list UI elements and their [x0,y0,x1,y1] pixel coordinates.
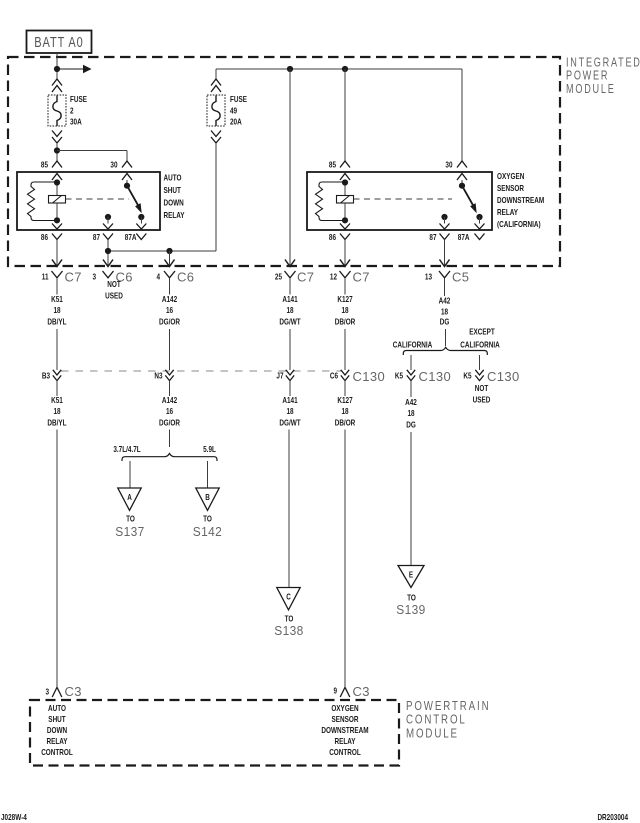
svg-text:CONTROL: CONTROL [329,747,361,757]
svg-text:DG/OR: DG/OR [159,418,181,428]
svg-text:SHUT: SHUT [48,714,66,724]
svg-text:SENSOR: SENSOR [497,183,525,193]
svg-text:MODULE: MODULE [566,83,616,97]
relay K1: AUTO SHUT DOWN RELAY box [17,172,185,230]
node: bus tap to 25 C7 [287,66,293,72]
svg-text:CONTROL: CONTROL [41,747,73,757]
svg-text:FUSE: FUSE [230,94,247,104]
connector 4 C6 [156,270,194,285]
wire: O2 86 to connector 12 C7 [340,240,350,267]
svg-text:B3: B3 [42,371,50,381]
wire A42 18 DG (upper) [439,284,451,346]
svg-text:18: 18 [441,307,448,317]
svg-text:K127: K127 [337,395,352,405]
wire: bus down to O2 relay pin 85 [344,69,346,161]
svg-text:POWERTRAIN: POWERTRAIN [406,700,491,713]
wire: ASD 86 to connector 11 C7 [52,240,62,267]
svg-text:K127: K127 [337,294,352,304]
svg-text:12: 12 [330,272,337,282]
connector chevrons below fuse 2 [52,131,62,144]
svg-text:18: 18 [286,406,293,416]
svg-text:BATT A0: BATT A0 [34,33,83,50]
wire A42 18 DG (lower) [405,381,417,566]
wire: branch to ASD relay pin 30 [57,151,127,162]
pin 87 exit and label (O2 relay) [429,217,449,247]
svg-text:A141: A141 [282,395,297,405]
svg-text:5.9L: 5.9L [203,444,216,454]
svg-text:CALIFORNIA: CALIFORNIA [393,340,433,350]
wire: BATT A0 down into IPM [56,53,58,79]
svg-text:S142: S142 [193,525,222,540]
O2 relay coil resistor [316,182,345,221]
connector 3 C6 not used [92,270,132,301]
wire: except-california branch down to C130 [479,355,481,370]
svg-text:K51: K51 [51,294,63,304]
svg-text:4: 4 [156,272,160,282]
wire: O2 87 to connector 13 C5 [440,240,450,267]
powertrain control module label [406,700,491,741]
splice B3 [42,370,61,381]
inline connector C130 dashed line [61,370,341,372]
svg-text:A42: A42 [405,397,417,407]
wire: fuse 49 down and over to ASD pin 87 [108,143,216,251]
svg-text:(CALIFORNIA): (CALIFORNIA) [497,219,541,229]
svg-text:OXYGEN: OXYGEN [331,703,358,713]
svg-text:DG: DG [406,420,416,430]
svg-text:C6: C6 [330,371,338,381]
powertrain control module dashed boundary [30,700,399,766]
svg-text:87: 87 [429,232,436,242]
connector C6 C130 [330,369,385,384]
connector K5 C130 california [395,369,451,384]
wire K127 18 DB/OR (upper) [335,284,356,370]
svg-text:DB/OR: DB/OR [335,418,356,428]
node: ASD pin 87A contact [138,214,144,220]
svg-text:B: B [205,492,210,502]
svg-text:N3: N3 [154,371,162,381]
node: ASD pin 87 contact [105,214,111,220]
svg-text:E: E [409,570,413,580]
ASD relay coil resistor [28,182,57,221]
svg-text:J028W-4: J028W-4 [1,812,27,822]
svg-text:9: 9 [333,686,337,696]
svg-text:85: 85 [329,160,336,170]
pin 86 exit and label (O2 relay) [329,224,350,248]
svg-text:86: 86 [329,232,336,242]
svg-text:DOWN: DOWN [47,725,67,735]
relay K2: OXYGEN SENSOR DOWNSTREAM RELAY box [307,171,544,230]
svg-text:K5: K5 [395,371,403,381]
svg-text:30: 30 [110,160,117,170]
svg-text:USED: USED [105,291,123,301]
O2 relay coil element [337,180,354,224]
svg-text:RELAY: RELAY [497,207,518,217]
splice N3 [154,370,173,381]
svg-text:87: 87 [93,232,100,242]
node: B+ junction with continuation arrow [54,65,92,73]
svg-text:C: C [286,592,291,602]
fuse F2 (FUSE 2 30A) [48,94,87,126]
connector chevrons above fuse 49 [211,79,221,92]
svg-text:3.7L/4.7L: 3.7L/4.7L [113,444,141,454]
off-page connector A to S137 [115,488,144,539]
svg-text:3: 3 [45,687,49,697]
svg-text:DR203004: DR203004 [597,812,628,822]
node: O2 pin 87 contact [441,214,447,220]
wire K51 18 DB/YL (lower) [47,381,67,687]
svg-text:DB/OR: DB/OR [335,317,356,327]
connector 11 C7 [42,270,82,285]
svg-text:A42: A42 [439,296,451,306]
svg-text:A141: A141 [282,294,297,304]
BATT A0 power feed box [27,31,92,54]
pin 87A exit and label (ASD) [125,217,147,242]
svg-text:K51: K51 [51,395,63,405]
node: bus tap to O2 relay pin 85 [342,66,348,72]
svg-text:DG/WT: DG/WT [279,418,301,428]
pin 30 label and entry (ASD) [110,160,132,180]
svg-text:AUTO: AUTO [164,173,182,183]
svg-text:TO: TO [285,614,294,624]
node: junction to connector 4 C6 [165,248,175,267]
svg-text:C3: C3 [65,684,82,699]
svg-text:FUSE: FUSE [70,94,87,104]
pin 30 label and entry (O2 relay) [445,160,467,180]
svg-text:RELAY: RELAY [46,736,67,746]
svg-text:POWER: POWER [566,69,609,83]
wire: fuse 2 to ASD relay pin 85 [56,143,58,161]
node: ASD coil top [54,179,60,185]
svg-text:CONTROL: CONTROL [406,713,467,726]
splice J7 [276,370,294,381]
footer drawing number J028W-4 [1,812,27,822]
svg-text:C130: C130 [487,369,520,384]
off-page connector B to S142 [193,488,222,539]
svg-text:18: 18 [286,305,293,315]
svg-text:DOWNSTREAM: DOWNSTREAM [321,725,368,735]
connector chevrons below fuse 49 [211,131,221,144]
svg-text:S138: S138 [274,624,303,639]
svg-text:NOT: NOT [475,383,489,393]
wire K127 18 DB/OR (lower) [335,381,356,687]
svg-text:DB/YL: DB/YL [47,418,67,428]
O2 relay actuation dashed link [354,198,453,200]
node: O2 coil top [342,179,348,185]
svg-text:C5: C5 [452,270,469,285]
svg-text:TO: TO [126,514,135,524]
connector 12 C7 [330,270,370,285]
svg-text:18: 18 [341,305,348,315]
svg-text:USED: USED [473,395,491,405]
svg-text:18: 18 [341,406,348,416]
svg-text:A: A [127,492,132,502]
svg-text:MODULE: MODULE [406,727,459,740]
svg-text:DG/WT: DG/WT [279,317,301,327]
svg-text:TO: TO [407,593,416,603]
svg-text:3: 3 [92,272,96,282]
connector 13 C5 [425,270,470,285]
node: O2 coil bottom [342,217,348,223]
ASD relay switch blade pin 30 to 87A [124,180,142,213]
svg-text:DOWN: DOWN [164,198,184,208]
svg-text:11: 11 [42,272,49,282]
svg-text:CALIFORNIA: CALIFORNIA [460,340,500,350]
svg-text:C7: C7 [353,270,370,285]
ASD relay actuation dashed link [66,198,130,200]
svg-text:25: 25 [275,272,282,282]
svg-text:J7: J7 [276,371,283,381]
svg-text:TO: TO [203,514,212,524]
svg-text:S137: S137 [115,525,144,540]
svg-text:30A: 30A [70,117,82,127]
wire: fused B+ bus (ASD output) [216,69,462,161]
node: O2 pin 87A contact [476,214,482,220]
svg-text:16: 16 [166,406,173,416]
brace: 3.7L/4.7L / 5.9L split [113,444,217,461]
off-page connector C to S138 [274,588,303,639]
pin 87 exit and label (ASD) [93,217,113,247]
svg-text:A142: A142 [162,395,177,405]
svg-text:EXCEPT: EXCEPT [469,327,495,337]
svg-text:SHUT: SHUT [164,185,182,195]
border arrow: A141 to 25 C7 [285,260,295,267]
PCM auto shut down relay control label [41,703,73,757]
O2 relay switch blade pin 30 to 87A [459,180,477,213]
wire: bus down to connector 25 C7 [289,69,291,266]
footer drawing number DR203004 [597,812,628,822]
svg-text:30: 30 [445,160,452,170]
node: fuse2 output junction [54,147,60,153]
svg-text:13: 13 [425,272,432,282]
connector 3 C3 [45,684,81,699]
svg-text:16: 16 [166,305,173,315]
fuse F49 (FUSE 49 20A) [207,94,247,126]
svg-text:DG/OR: DG/OR [159,317,181,327]
integrated power module dashed boundary [8,57,560,266]
ASD relay coil element [49,180,66,224]
svg-text:A142: A142 [162,294,177,304]
wire A142 16 DG/OR (lower) [159,381,181,447]
svg-text:85: 85 [41,160,48,170]
wire: 5.9L branch [207,461,209,488]
svg-text:18: 18 [53,406,60,416]
svg-text:DB/YL: DB/YL [47,317,67,327]
svg-text:RELAY: RELAY [164,210,185,220]
wire A141 18 DG/WT (lower) [279,381,301,588]
svg-text:DG: DG [440,317,450,327]
svg-text:C3: C3 [353,684,370,699]
wire: california branch down to C130 [410,355,412,370]
connector K5 C130 not used [463,369,519,405]
svg-text:RELAY: RELAY [334,736,355,746]
svg-text:OXYGEN: OXYGEN [497,171,524,181]
svg-text:18: 18 [407,408,414,418]
pin 85 label and entry (O2 relay) [329,160,350,180]
svg-text:C130: C130 [353,369,386,384]
svg-text:C130: C130 [419,369,452,384]
wire A142 16 DG/OR (upper) [159,284,181,370]
connector 25 C7 [275,270,315,285]
svg-text:C7: C7 [297,270,314,285]
PCM oxygen sensor downstream relay control label [321,703,368,757]
svg-text:2: 2 [70,106,74,116]
pin 85 label and entry (ASD) [41,160,62,180]
svg-text:NOT: NOT [107,279,121,289]
svg-text:AUTO: AUTO [48,703,66,713]
svg-text:S139: S139 [396,603,425,618]
svg-text:20A: 20A [230,117,242,127]
off-page connector E to S139 [396,566,425,618]
svg-text:DOWNSTREAM: DOWNSTREAM [497,195,544,205]
svg-text:INTEGRATED: INTEGRATED [566,56,640,70]
pin 87A exit and label (O2 relay) [458,217,485,242]
node: ASD coil bottom [54,217,60,223]
integrated power module label [566,56,640,96]
svg-text:18: 18 [53,305,60,315]
brace: CALIFORNIA / EXCEPT CALIFORNIA split [393,327,501,355]
connector 9 C3 [333,684,369,699]
svg-text:K5: K5 [463,371,471,381]
svg-text:C6: C6 [177,270,194,285]
wire K51 18 DB/YL (upper) [47,284,67,370]
svg-text:C7: C7 [65,270,82,285]
svg-text:49: 49 [230,106,237,116]
wire A141 18 DG/WT (upper) [279,284,301,370]
wire: 3.7L/4.7L branch [129,461,131,488]
svg-text:87A: 87A [125,232,137,242]
svg-text:SENSOR: SENSOR [331,714,359,724]
svg-text:87A: 87A [458,232,470,242]
connector chevrons above fuse 2 [52,79,62,92]
svg-text:86: 86 [41,232,48,242]
pin 86 exit and label (ASD) [41,224,62,248]
node: junction ASD 87 / fuse49 feed [103,247,113,267]
